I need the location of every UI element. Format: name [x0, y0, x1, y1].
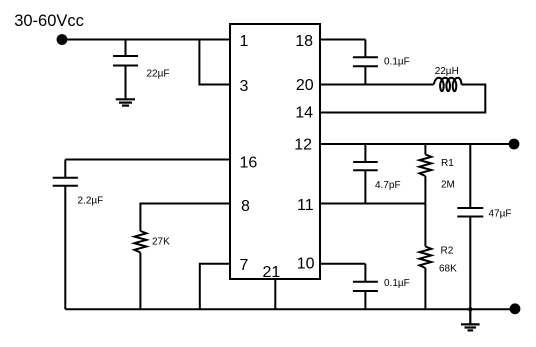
- capacitor C 0.1uF (top): [353, 40, 378, 85]
- svg-text:12: 12: [294, 137, 312, 154]
- ground under 22uF: [116, 99, 135, 105]
- inductor L 22uH: [434, 78, 462, 91]
- wire pin 8: [140, 204, 230, 232]
- wire inductor to pin 14 loop: [320, 85, 485, 113]
- wire pin 12 rail: [320, 143, 514, 145]
- svg-text:30-60Vcc: 30-60Vcc: [14, 12, 84, 30]
- wire pin 20 to inductor: [320, 84, 434, 86]
- svg-text:47µF: 47µF: [489, 209, 512, 220]
- terminal output dot (bottom right): [510, 303, 521, 314]
- terminal Vcc input dot: [57, 34, 68, 45]
- wire pin 10: [320, 263, 365, 265]
- svg-text:0.1µF: 0.1µF: [384, 278, 410, 289]
- resistor 27K: [134, 231, 146, 309]
- svg-text:R2: R2: [441, 246, 454, 257]
- svg-text:11: 11: [297, 197, 314, 214]
- resistor R1: [419, 144, 431, 247]
- terminal output dot (top right): [509, 139, 520, 150]
- svg-text:7: 7: [240, 257, 249, 274]
- wire pin 7: [200, 264, 230, 310]
- svg-text:8: 8: [241, 198, 250, 215]
- svg-text:10: 10: [297, 256, 315, 273]
- op-amp U1 (IC box): [230, 24, 320, 279]
- svg-text:2.2µF: 2.2µF: [78, 196, 104, 207]
- capacitor C 47uF: [457, 144, 483, 309]
- svg-text:3: 3: [240, 78, 249, 95]
- resistor R2: [419, 247, 431, 310]
- svg-text:1: 1: [240, 33, 249, 50]
- svg-text:16: 16: [240, 155, 258, 172]
- capacitor C 2.2uF: [53, 160, 78, 310]
- svg-text:4.7pF: 4.7pF: [375, 180, 401, 191]
- svg-text:20: 20: [296, 77, 314, 94]
- svg-text:14: 14: [295, 105, 313, 122]
- wire pin 18: [320, 39, 365, 41]
- wire bottom rail: [65, 308, 515, 310]
- svg-text:21: 21: [263, 264, 281, 281]
- svg-text:R1: R1: [441, 158, 454, 169]
- wire pin 11: [320, 203, 425, 205]
- svg-text:22µF: 22µF: [147, 69, 170, 80]
- capacitor C 22uF: [113, 40, 138, 100]
- capacitor C 4.7pF: [353, 144, 378, 204]
- wire branch to pin 3: [199, 40, 230, 85]
- wire top rail Vcc to pin 1: [62, 39, 230, 41]
- svg-text:27K: 27K: [152, 237, 170, 248]
- wire pin 16: [65, 159, 230, 161]
- wire pin 21 stub: [274, 279, 276, 309]
- svg-text:22µH: 22µH: [435, 66, 459, 77]
- svg-text:18: 18: [295, 33, 313, 50]
- capacitor C 0.1uF (bottom): [353, 264, 378, 310]
- ground (bottom right): [461, 309, 480, 330]
- svg-text:0.1µF: 0.1µF: [384, 57, 410, 68]
- node junction dot: [468, 307, 472, 311]
- svg-text:68K: 68K: [439, 264, 457, 275]
- svg-text:2M: 2M: [441, 180, 455, 191]
